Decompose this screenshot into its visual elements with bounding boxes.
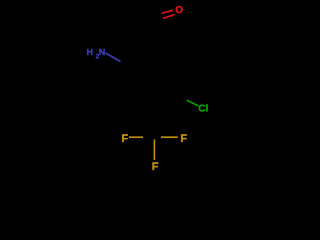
bond C-Cl chlorine half (green) [187, 100, 198, 106]
wire: carbon halves of C-F bonds (black) [149, 137, 161, 139]
bond C=O double bond, oxygen half line 2 (red) [163, 15, 175, 19]
svg-text:F: F [180, 133, 187, 145]
wire: ring to CF3 carbon (black) [154, 109, 156, 137]
svg-text:N: N [99, 47, 106, 57]
wire: carbon half of C-Cl bond (black) [180, 95, 187, 101]
svg-text:F: F [152, 161, 159, 173]
bond N-C nitrogen half (blue) [106, 53, 121, 62]
svg-text:O: O [175, 5, 183, 16]
wire: ring to aldehyde carbon (black) [146, 23, 155, 52]
wire: carbon half of C-N bond (black) [121, 62, 130, 67]
svg-text:H: H [87, 47, 94, 57]
bond C=O double bond, oxygen half line 1 (red) [162, 10, 173, 13]
svg-text:Cl: Cl [198, 104, 208, 115]
svg-text:F: F [121, 133, 128, 145]
bond C-F right fluorine half (gold) [161, 136, 178, 138]
bond C-F bottom fluorine half (gold) [153, 140, 155, 161]
bond C-F left fluorine half (gold) [129, 136, 143, 138]
benzene ring (carbon skeleton, black) [130, 52, 180, 109]
